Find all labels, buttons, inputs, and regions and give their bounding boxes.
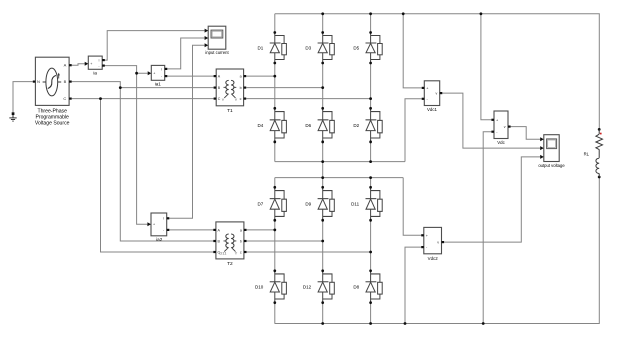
wire T2 a to bottom bridge leg 1 — [247, 229, 275, 231]
wire top bus to Vdc1 + — [403, 14, 422, 88]
diode D5 — [353, 31, 382, 64]
wire bottom bridge leg 2 segments — [322, 178, 324, 324]
wire mid bus (top bridge negative) — [275, 161, 405, 163]
wire top DC bus to RL top — [275, 14, 600, 130]
svg-text:D5: D5 — [353, 46, 359, 51]
wire bottom bridge positive bus — [275, 177, 403, 179]
diode D10 — [255, 269, 286, 304]
svg-text:output voltage: output voltage — [538, 163, 565, 168]
wire Vdc - to bottom bus — [483, 132, 491, 324]
node A1 junction — [135, 72, 138, 75]
node leg3 phase c junction — [369, 97, 372, 100]
diode D3 — [305, 31, 334, 64]
wire T1 a to top bridge leg 1 — [246, 75, 275, 77]
wire bottom bridge leg 3 segments — [370, 178, 372, 324]
diode D1 — [258, 31, 287, 64]
svg-text:Voltage Source: Voltage Source — [35, 120, 70, 126]
svg-text:ia1: ia1 — [155, 82, 162, 87]
svg-text:v: v — [504, 125, 506, 129]
svg-text:C: C — [218, 97, 221, 101]
diode D11 — [351, 186, 382, 222]
wire T2 c to bottom bridge leg 3 — [247, 251, 371, 253]
wire ia output to node A1 to ia1 — [102, 66, 148, 74]
scope input current — [205, 26, 230, 55]
svg-text:+: + — [153, 223, 155, 227]
svg-text:T2: T2 — [227, 261, 233, 267]
svg-text:D8: D8 — [353, 285, 359, 290]
wire Vdc2 v to scope input 3 (output voltage) — [444, 157, 540, 242]
node RL top terminal — [598, 128, 601, 131]
wire source C to T1 port C — [72, 98, 214, 100]
node leg2 phase b2 junction — [321, 240, 324, 243]
node leg3 phase c2 junction — [369, 251, 372, 254]
transformer T1 — [214, 69, 247, 114]
diode D6 — [305, 107, 334, 144]
wire node B1 down to T2 port B (phase B feeder) — [120, 88, 213, 241]
svg-text:A: A — [64, 63, 67, 68]
wire source B to node B1 — [72, 82, 121, 88]
diode D4 — [258, 107, 287, 144]
series RLC branch RL — [584, 129, 603, 177]
svg-text:Y: Y — [222, 97, 225, 102]
wire series link mid bus to positive bus — [322, 162, 324, 178]
diode D7 — [258, 186, 287, 222]
node top bus Vdc junction — [480, 12, 483, 15]
svg-text:Vdc2: Vdc2 — [428, 256, 439, 261]
svg-text:D7: D7 — [258, 202, 264, 207]
node B1 junction — [119, 86, 122, 89]
svg-text:D6: D6 — [305, 123, 311, 128]
svg-text:input current: input current — [205, 50, 229, 55]
svg-text:ia2: ia2 — [156, 237, 163, 242]
svg-text:a: a — [240, 228, 242, 232]
wire top bus to Vdc + — [481, 14, 492, 120]
svg-text:D3: D3 — [305, 46, 311, 51]
svg-text:D12: D12 — [303, 285, 312, 290]
wire Vdc2 - to bottom bus — [405, 247, 421, 323]
svg-text:b: b — [240, 86, 242, 90]
svg-text:D2: D2 — [353, 123, 359, 128]
node bottom bus Vdc2 junction — [404, 322, 407, 325]
node bottom bus leg3 junction — [369, 322, 372, 325]
wire Vdc1 v to scope input 2 (output voltage) — [442, 93, 540, 148]
node positive bus leg3 junction — [369, 176, 372, 179]
node mid bus leg3 junction — [369, 160, 372, 163]
diode D9 — [305, 186, 334, 222]
svg-text:D4: D4 — [258, 123, 264, 128]
svg-text:T1: T1 — [227, 108, 233, 114]
node RL bottom terminal — [598, 176, 601, 179]
svg-text:Vdc: Vdc — [497, 140, 505, 145]
svg-text:+: + — [90, 62, 92, 66]
svg-text:B: B — [64, 79, 67, 84]
wire node C1 down to T2 port C (phase C feeder) — [101, 99, 214, 252]
wire ia2 output to T2 port A — [169, 229, 213, 231]
svg-text:+: + — [153, 72, 155, 76]
current measurement ia — [85, 56, 105, 76]
current measurement ia2 — [147, 213, 169, 242]
svg-text:D1: D1 — [258, 46, 264, 51]
diode D8 — [353, 269, 382, 304]
svg-text:Vdc1: Vdc1 — [427, 107, 438, 112]
svg-text:c: c — [240, 251, 242, 255]
wire top bridge leg 1 segments — [274, 14, 276, 162]
svg-text:ia: ia — [93, 71, 97, 76]
svg-text:a: a — [240, 75, 242, 79]
wire positive bus to Vdc2 + — [403, 178, 421, 236]
node top bus leg2 junction — [321, 12, 324, 15]
wire top bridge leg 2 segments — [322, 14, 324, 162]
svg-text:v: v — [436, 92, 438, 96]
node leg1 phase a junction — [273, 75, 276, 78]
node leg1 phase a2 junction — [273, 229, 276, 232]
svg-text:RL: RL — [584, 152, 590, 157]
node top bus leg3 junction — [369, 12, 372, 15]
diode D12 — [303, 269, 334, 304]
wire Vdc v to scope input 1 (output voltage) — [511, 127, 541, 140]
wire source A to ia — [72, 64, 85, 65]
svg-text:v: v — [437, 241, 439, 245]
diode D2 — [353, 107, 382, 144]
voltage measurement Vdc2 — [421, 227, 444, 261]
node bottom bus Vdc junction — [482, 322, 485, 325]
svg-text:Y: Y — [235, 97, 238, 102]
node top bus Vdc1 junction — [402, 12, 405, 15]
wire Vdc1 - to mid bus — [405, 99, 422, 162]
wire T2 b to bottom bridge leg 2 — [247, 240, 323, 242]
wire T1 b to top bridge leg 2 — [246, 87, 323, 89]
wire ia i output to scope input 1 — [102, 31, 205, 60]
svg-text:D10: D10 — [255, 285, 264, 290]
wire ia1 i output to scope input 2 — [167, 38, 204, 69]
node leg2 phase b junction — [321, 86, 324, 89]
node bottom bus leg2 junction — [321, 322, 324, 325]
wire ia1 output to T1 port A — [167, 75, 213, 77]
svg-text:D11: D11 — [219, 251, 227, 256]
scope output voltage — [538, 135, 565, 169]
current measurement ia1 — [148, 65, 168, 86]
wire ia2 i output to scope input 3 — [169, 45, 204, 218]
transformer T2 — [213, 222, 246, 267]
svg-text:Y: Y — [235, 251, 238, 256]
wire T1 c to top bridge leg 3 — [246, 98, 370, 100]
wire node B1 to T1 port B — [120, 87, 213, 89]
svg-text:D9: D9 — [305, 202, 311, 207]
node C1 junction — [99, 97, 102, 100]
node mid bus leg2 junction — [321, 160, 324, 163]
wire bottom DC bus to RL bottom — [275, 177, 600, 324]
wire source N to ground — [13, 82, 33, 113]
voltage measurement Vdc — [491, 111, 510, 145]
node positive bus leg2 junction — [321, 176, 324, 179]
svg-text:D11: D11 — [351, 202, 359, 207]
svg-text:N: N — [37, 79, 40, 84]
three-phase programmable voltage source — [33, 57, 72, 126]
svg-text:c: c — [240, 97, 242, 101]
wire bottom bridge leg 1 segments — [274, 178, 276, 324]
svg-text:C: C — [63, 96, 66, 101]
wire node A1 down to ia2 (phase A feeder) — [137, 73, 148, 224]
wire top bridge leg 3 segments — [370, 14, 372, 162]
svg-text:b: b — [240, 240, 242, 244]
voltage measurement Vdc1 — [422, 81, 443, 112]
ground — [9, 112, 16, 121]
